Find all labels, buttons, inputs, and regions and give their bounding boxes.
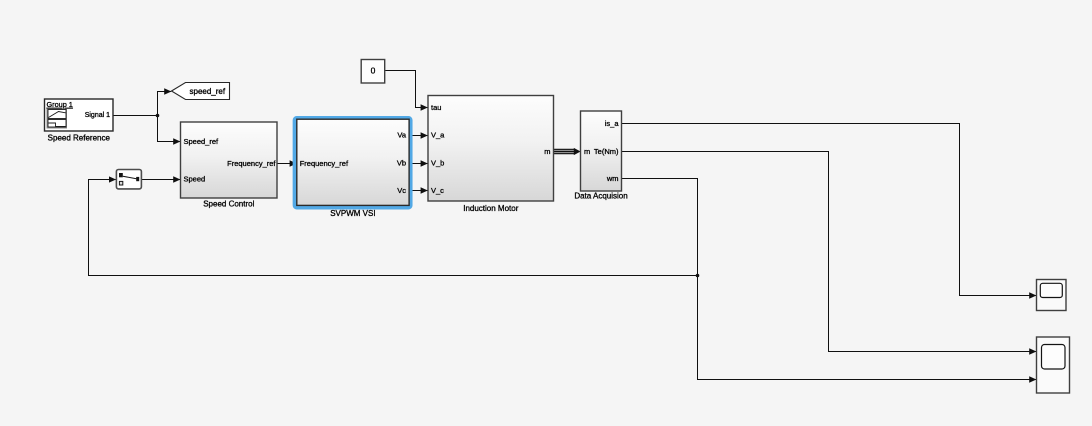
svg-text:Speed: Speed [184,175,206,184]
wire: Data Acquision is_a output to Scope1 [622,124,1037,296]
label: Speed Reference [48,134,111,143]
wire: feedback from junction to Manual Switch input [89,180,698,276]
svg-text:Va: Va [397,131,406,140]
block: Speed Reference (Signal Builder) [45,99,114,131]
wire: junction up to goto tag speed_ref [158,92,172,116]
block: Scope2 (Te, wm) [1037,337,1070,393]
block: Speed Control [181,122,278,198]
svg-text:Induction Motor: Induction Motor [463,204,518,213]
svg-text:Speed Reference: Speed Reference [48,134,111,143]
block: Scope1 (is_a) [1037,280,1067,311]
wire: Signal Builder output to junction [113,115,158,117]
wire: SVPWM Va output to Induction Motor V_a input [412,135,428,137]
svg-text:V_b: V_b [431,159,444,168]
wire: SVPWM Vc output to Induction Motor V_c input [412,190,428,192]
block: Manual Switch [116,170,141,189]
svg-text:Frequency_ref: Frequency_ref [227,159,276,168]
svg-text:speed_ref: speed_ref [190,87,226,96]
block: Data Acquision [581,111,622,191]
block: Induction Motor [428,96,554,202]
svg-text:Data Acquision: Data Acquision [574,192,627,201]
wire: Data Acquision Te(Nm) output to Scope2 upper input [622,152,1037,352]
selection highlight: SVPWM VSI [295,118,411,207]
svg-text:SVPWM VSI: SVPWM VSI [330,209,375,218]
wire: Constant 0 output to Induction Motor tau input [385,71,427,108]
svg-text:Signal 1: Signal 1 [85,112,110,119]
svg-text:tau: tau [431,103,441,112]
junction: signal split node [156,114,160,118]
svg-text:Vb: Vb [397,159,406,168]
wire: Speed Control Frequency_ref output to SVPWM VSI input [277,163,297,165]
label: Speed Control [203,200,254,209]
svg-text:V_a: V_a [431,131,445,140]
wire: Manual Switch output to Speed Control Speed input [141,179,181,181]
svg-text:Speed Control: Speed Control [203,200,254,209]
svg-text:Speed_ref: Speed_ref [184,137,220,146]
svg-text:Group 1: Group 1 [47,100,73,109]
block: SVPWM VSI [297,119,409,205]
svg-text:Te(Nm): Te(Nm) [594,147,619,156]
label: Data Acquision [574,192,627,201]
goto tag: speed_ref [172,83,230,100]
svg-text:m: m [544,147,550,156]
junction: wm feedback branch node [696,274,700,278]
block: Constant 0 [361,60,385,84]
svg-text:wm: wm [606,174,619,183]
svg-text:Vc: Vc [397,186,406,195]
wire: SVPWM Vb output to Induction Motor V_b input [412,163,428,165]
svg-text:0: 0 [371,65,376,75]
label: SVPWM VSI [330,209,375,218]
label: Induction Motor [463,204,518,213]
wire: Data Acquision wm output down to Scope2 lower input [622,179,1037,380]
svg-text:Frequency_ref: Frequency_ref [300,159,349,168]
wire: junction down to Speed Control Speed_ref input [158,116,181,142]
svg-text:m: m [584,147,590,156]
svg-text:is_a: is_a [605,119,620,128]
svg-text:V_c: V_c [431,186,444,195]
wire: bus m from Induction Motor to Data Acquision [554,148,581,155]
